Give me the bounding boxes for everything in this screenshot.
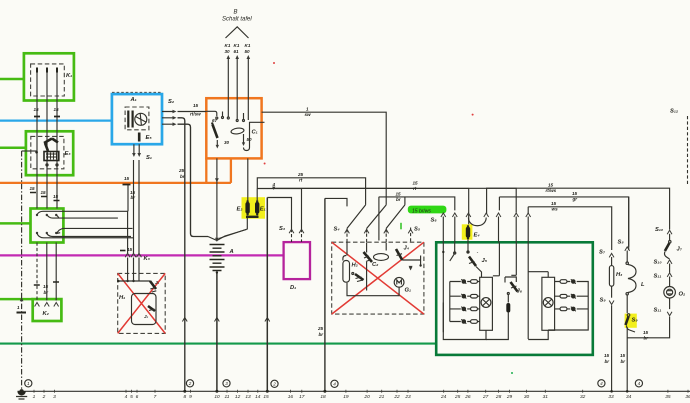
svg-text:S₉: S₉ bbox=[632, 318, 639, 324]
svg-text:15: 15 bbox=[127, 247, 133, 252]
svg-text:1: 1 bbox=[306, 107, 309, 112]
svg-text:5: 5 bbox=[130, 394, 133, 400]
svg-text:15: 15 bbox=[54, 107, 60, 112]
svg-text:S₅: S₅ bbox=[414, 227, 421, 233]
svg-text:B: B bbox=[234, 10, 238, 16]
svg-text:25: 25 bbox=[297, 172, 304, 177]
svg-text:S₉: S₉ bbox=[600, 298, 607, 304]
svg-text:35: 35 bbox=[665, 394, 671, 400]
svg-text:2: 2 bbox=[272, 382, 276, 387]
svg-text:K1: K1 bbox=[225, 43, 231, 48]
svg-text:15: 15 bbox=[572, 191, 578, 196]
svg-text:E₅: E₅ bbox=[146, 135, 153, 141]
svg-text:S₂: S₂ bbox=[168, 99, 175, 105]
svg-text:15: 15 bbox=[396, 192, 402, 197]
svg-text:15: 15 bbox=[643, 330, 649, 335]
svg-text:30: 30 bbox=[224, 140, 230, 145]
svg-text:22: 22 bbox=[393, 394, 400, 400]
svg-text:15: 15 bbox=[43, 284, 49, 289]
svg-text:4: 4 bbox=[125, 394, 128, 400]
svg-text:D₁: D₁ bbox=[290, 285, 296, 291]
svg-text:11: 11 bbox=[225, 394, 230, 400]
svg-text:17: 17 bbox=[299, 394, 305, 400]
svg-text:rt: rt bbox=[299, 178, 303, 183]
svg-text:4: 4 bbox=[600, 381, 603, 386]
svg-text:3: 3 bbox=[225, 381, 228, 386]
svg-text:1: 1 bbox=[27, 381, 30, 386]
svg-text:30: 30 bbox=[524, 394, 530, 400]
svg-text:S₁₀: S₁₀ bbox=[655, 227, 664, 233]
svg-text:sw: sw bbox=[305, 112, 312, 117]
svg-text:S₁₂: S₁₂ bbox=[670, 109, 679, 115]
svg-text:1: 1 bbox=[33, 394, 36, 400]
svg-text:H₁: H₁ bbox=[119, 295, 125, 301]
svg-text:br: br bbox=[131, 195, 136, 200]
svg-text:S₁₁: S₁₁ bbox=[654, 274, 662, 280]
svg-text:br: br bbox=[621, 359, 626, 364]
svg-text:15: 15 bbox=[413, 181, 419, 186]
svg-text:br: br bbox=[605, 359, 610, 364]
svg-text:S₃: S₃ bbox=[279, 226, 286, 232]
svg-text:S₇: S₇ bbox=[599, 250, 606, 256]
svg-text:J₂: J₂ bbox=[144, 314, 149, 319]
svg-text:br: br bbox=[44, 290, 49, 295]
svg-text:1: 1 bbox=[17, 305, 20, 310]
svg-text:E₁: E₁ bbox=[260, 207, 266, 213]
svg-text:19: 19 bbox=[343, 394, 349, 400]
svg-text:J₅: J₅ bbox=[482, 258, 488, 264]
svg-text:K₁: K₁ bbox=[66, 73, 72, 79]
svg-text:7: 7 bbox=[154, 394, 157, 400]
svg-text:ws: ws bbox=[552, 207, 559, 212]
svg-text:H₃: H₃ bbox=[616, 272, 623, 278]
svg-text:O₂: O₂ bbox=[679, 292, 687, 298]
svg-text:J₄: J₄ bbox=[404, 246, 410, 252]
svg-text:Schalt tafel: Schalt tafel bbox=[222, 17, 252, 23]
svg-text:25: 25 bbox=[454, 394, 461, 400]
svg-text:32: 32 bbox=[580, 394, 586, 400]
svg-text:A₁: A₁ bbox=[130, 97, 137, 103]
svg-text:br: br bbox=[396, 197, 401, 202]
svg-text:S₈: S₈ bbox=[618, 240, 625, 246]
svg-text:50: 50 bbox=[245, 49, 251, 54]
svg-text:E₂: E₂ bbox=[237, 207, 244, 213]
svg-text:15: 15 bbox=[193, 103, 199, 108]
svg-text:A: A bbox=[229, 249, 234, 255]
svg-text:J₁: J₁ bbox=[155, 280, 160, 285]
svg-text:rt: rt bbox=[413, 186, 417, 191]
svg-text:S₆: S₆ bbox=[431, 218, 438, 224]
svg-text:E₄: E₄ bbox=[474, 233, 481, 239]
svg-text:9: 9 bbox=[189, 394, 192, 400]
svg-text:23: 23 bbox=[404, 394, 411, 400]
svg-text:S₄: S₄ bbox=[334, 227, 341, 233]
svg-text:12: 12 bbox=[235, 394, 241, 400]
svg-text:61: 61 bbox=[234, 49, 240, 54]
svg-text:26: 26 bbox=[464, 394, 471, 400]
svg-text:gr: gr bbox=[572, 197, 578, 202]
svg-text:G₁: G₁ bbox=[405, 288, 412, 294]
svg-text:J₇: J₇ bbox=[677, 247, 683, 253]
svg-text:31: 31 bbox=[543, 394, 549, 400]
svg-text:2: 2 bbox=[188, 381, 192, 386]
svg-text:4: 4 bbox=[272, 182, 276, 187]
svg-text:4: 4 bbox=[638, 381, 641, 386]
svg-text:15: 15 bbox=[604, 353, 610, 358]
svg-text:67: 67 bbox=[212, 118, 218, 123]
svg-text:2: 2 bbox=[42, 394, 46, 400]
svg-text:16: 16 bbox=[288, 394, 294, 400]
svg-text:8: 8 bbox=[183, 394, 186, 400]
svg-text:3: 3 bbox=[53, 394, 56, 400]
svg-text:K1: K1 bbox=[234, 43, 240, 48]
svg-text:28: 28 bbox=[495, 394, 502, 400]
svg-text:10: 10 bbox=[214, 394, 220, 400]
svg-text:15 br/ws: 15 br/ws bbox=[412, 209, 431, 215]
svg-text:4: 4 bbox=[333, 382, 336, 387]
svg-text:E₃: E₃ bbox=[65, 151, 72, 157]
svg-text:13: 13 bbox=[245, 394, 251, 400]
svg-text:rt/ws: rt/ws bbox=[546, 188, 557, 193]
svg-text:S₁₀: S₁₀ bbox=[654, 260, 663, 266]
svg-text:S₁: S₁ bbox=[146, 155, 152, 161]
svg-text:33: 33 bbox=[608, 394, 614, 400]
svg-text:15: 15 bbox=[41, 190, 47, 195]
svg-text:rt/sw: rt/sw bbox=[190, 112, 201, 117]
svg-text:C₁: C₁ bbox=[252, 130, 258, 136]
svg-text:15: 15 bbox=[53, 194, 59, 199]
svg-text:15: 15 bbox=[551, 201, 557, 206]
svg-text:J₆: J₆ bbox=[517, 289, 523, 295]
svg-text:S₁₁: S₁₁ bbox=[654, 308, 662, 314]
svg-text:6: 6 bbox=[136, 394, 139, 400]
svg-text:25: 25 bbox=[178, 168, 185, 173]
svg-text:29: 29 bbox=[506, 394, 513, 400]
svg-text:15: 15 bbox=[124, 176, 130, 181]
svg-text:36: 36 bbox=[685, 394, 690, 400]
svg-text:25: 25 bbox=[317, 326, 324, 331]
svg-text:K₂: K₂ bbox=[43, 311, 50, 317]
svg-text:15: 15 bbox=[30, 186, 36, 191]
svg-text:15: 15 bbox=[263, 394, 269, 400]
svg-text:15: 15 bbox=[548, 183, 554, 188]
svg-text:br: br bbox=[180, 174, 185, 179]
svg-text:34: 34 bbox=[626, 394, 632, 400]
svg-text:15: 15 bbox=[620, 353, 626, 358]
svg-text:21: 21 bbox=[378, 394, 385, 400]
svg-text:14: 14 bbox=[255, 394, 261, 400]
svg-text:24: 24 bbox=[440, 394, 447, 400]
svg-text:30: 30 bbox=[225, 49, 231, 54]
svg-text:K₃: K₃ bbox=[144, 256, 151, 262]
svg-text:K1: K1 bbox=[245, 43, 251, 48]
svg-text:L: L bbox=[641, 282, 645, 288]
svg-text:H₂: H₂ bbox=[352, 263, 359, 269]
svg-text:15: 15 bbox=[34, 107, 40, 112]
svg-text:27: 27 bbox=[482, 394, 489, 400]
svg-text:18: 18 bbox=[320, 394, 326, 400]
svg-text:C₂: C₂ bbox=[372, 262, 379, 268]
svg-text:20: 20 bbox=[363, 394, 370, 400]
svg-text:br: br bbox=[319, 332, 324, 337]
